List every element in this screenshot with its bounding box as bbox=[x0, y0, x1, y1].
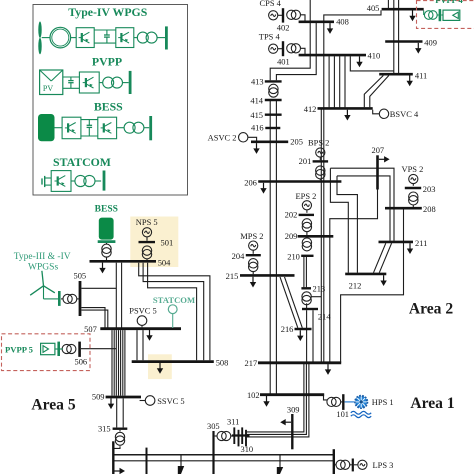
svg-text:Area 2: Area 2 bbox=[409, 300, 454, 317]
svg-text:411: 411 bbox=[415, 70, 427, 80]
svg-text:414: 414 bbox=[250, 95, 263, 105]
svg-text:BESS: BESS bbox=[95, 204, 118, 214]
svg-text:BSVC 4: BSVC 4 bbox=[390, 109, 419, 119]
svg-text:413: 413 bbox=[251, 76, 264, 86]
svg-text:217: 217 bbox=[245, 358, 258, 368]
svg-text:508: 508 bbox=[216, 357, 229, 367]
svg-text:Type-IV WPGS: Type-IV WPGS bbox=[68, 5, 147, 19]
svg-text:409: 409 bbox=[424, 38, 437, 48]
svg-text:305: 305 bbox=[207, 421, 220, 431]
svg-text:208: 208 bbox=[423, 204, 436, 214]
svg-text:408: 408 bbox=[336, 16, 349, 26]
svg-text:401: 401 bbox=[277, 57, 290, 67]
svg-text:Area 1: Area 1 bbox=[410, 395, 454, 412]
svg-text:VPS 2: VPS 2 bbox=[402, 164, 424, 174]
svg-text:204: 204 bbox=[232, 251, 245, 261]
svg-text:HPS 1: HPS 1 bbox=[372, 397, 394, 407]
svg-text:412: 412 bbox=[304, 104, 317, 114]
svg-text:MPS 2: MPS 2 bbox=[240, 231, 263, 241]
svg-text:Type-III & -IV: Type-III & -IV bbox=[14, 252, 71, 262]
svg-text:506: 506 bbox=[74, 357, 87, 367]
svg-text:410: 410 bbox=[368, 51, 381, 61]
svg-text:309: 309 bbox=[287, 404, 300, 414]
svg-text:TPS 4: TPS 4 bbox=[259, 32, 281, 42]
svg-text:BESS: BESS bbox=[94, 99, 123, 113]
svg-text:STATCOM: STATCOM bbox=[153, 295, 195, 305]
svg-text:202: 202 bbox=[285, 210, 298, 220]
svg-text:PVPP 4: PVPP 4 bbox=[435, 0, 463, 5]
svg-text:207: 207 bbox=[371, 145, 384, 155]
svg-text:EPS 2: EPS 2 bbox=[296, 191, 317, 201]
svg-text:415: 415 bbox=[250, 110, 263, 120]
svg-text:505: 505 bbox=[73, 270, 86, 280]
svg-text:211: 211 bbox=[415, 238, 427, 248]
svg-text:102: 102 bbox=[247, 390, 260, 400]
svg-text:507: 507 bbox=[84, 324, 97, 334]
svg-text:PVPP 5: PVPP 5 bbox=[5, 345, 33, 355]
svg-text:509: 509 bbox=[92, 392, 105, 402]
svg-text:ASVC 2: ASVC 2 bbox=[208, 133, 237, 143]
svg-text:315: 315 bbox=[98, 424, 111, 434]
svg-text:311: 311 bbox=[227, 416, 239, 426]
svg-text:PSVC 5: PSVC 5 bbox=[129, 306, 156, 316]
svg-text:212: 212 bbox=[349, 281, 362, 291]
svg-text:LPS 3: LPS 3 bbox=[373, 460, 394, 470]
svg-text:101: 101 bbox=[336, 409, 349, 419]
svg-text:PV: PV bbox=[43, 84, 53, 93]
svg-text:PVPP: PVPP bbox=[92, 55, 122, 69]
svg-text:203: 203 bbox=[423, 184, 436, 194]
svg-text:201: 201 bbox=[299, 156, 312, 166]
svg-text:205: 205 bbox=[290, 137, 303, 147]
svg-text:209: 209 bbox=[285, 231, 298, 241]
svg-text:210: 210 bbox=[287, 251, 300, 261]
svg-text:213: 213 bbox=[313, 284, 326, 294]
svg-text:405: 405 bbox=[367, 3, 380, 13]
svg-text:WPGSs: WPGSs bbox=[28, 263, 58, 273]
svg-text:SSVC 5: SSVC 5 bbox=[157, 396, 184, 406]
svg-text:215: 215 bbox=[226, 271, 239, 281]
svg-text:216: 216 bbox=[281, 324, 294, 334]
svg-text:STATCOM: STATCOM bbox=[53, 155, 111, 169]
svg-text:BPS 2: BPS 2 bbox=[308, 137, 329, 147]
svg-text:CPS 4: CPS 4 bbox=[260, 0, 282, 8]
svg-text:214: 214 bbox=[318, 311, 331, 321]
svg-text:310: 310 bbox=[240, 444, 253, 454]
svg-text:504: 504 bbox=[158, 258, 171, 268]
svg-text:206: 206 bbox=[244, 177, 257, 187]
svg-text:NPS 5: NPS 5 bbox=[136, 217, 158, 227]
svg-text:Area 5: Area 5 bbox=[31, 396, 76, 413]
svg-text:416: 416 bbox=[251, 122, 264, 132]
svg-text:501: 501 bbox=[161, 237, 174, 247]
